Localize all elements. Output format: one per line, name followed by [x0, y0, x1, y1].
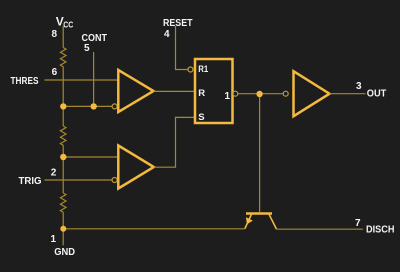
- wire divider node to U1 inverting input: [63, 105, 112, 107]
- wire R1 to R2 (divider node 2/3 Vcc): [62, 67, 64, 126]
- transistor Q1 emitter lead: [245, 214, 252, 229]
- svg-text:DISCH: DISCH: [366, 225, 395, 236]
- svg-text:1: 1: [51, 234, 57, 245]
- svg-text:THRES: THRES: [11, 76, 39, 87]
- wire TRIG to comparator U2 inverting input: [45, 179, 113, 181]
- wire divider 1/3 node to U2 noninverting input: [63, 156, 118, 158]
- wire node D to Q1 base: [259, 94, 261, 212]
- svg-text:RESET: RESET: [163, 18, 193, 29]
- junction node D (output / discharge tap): [256, 91, 262, 97]
- svg-text:S: S: [198, 112, 204, 123]
- junction node B (CONT tie-in): [91, 103, 97, 109]
- inversion bubble U2 input: [112, 178, 117, 183]
- svg-text:R1: R1: [198, 64, 209, 75]
- wire R2 to R3 (divider node 1/3 Vcc): [62, 145, 64, 193]
- svg-text:1: 1: [225, 91, 231, 102]
- svg-text:TRIG: TRIG: [19, 176, 42, 187]
- svg-text:8: 8: [52, 29, 58, 40]
- wire U2 output to latch S input: [154, 117, 195, 167]
- wire THRES to comparator U1 noninverting input: [45, 79, 119, 81]
- op-amp U4 (output buffer): [294, 71, 330, 116]
- wire U1 output to latch R input: [154, 90, 196, 92]
- svg-text:2: 2: [51, 167, 57, 178]
- inversion bubble latch R1 input: [188, 67, 193, 72]
- op-amp U2 (trigger comparator): [118, 146, 154, 189]
- wire VCC stub: [62, 26, 64, 48]
- junction node C (divider / U2 input): [60, 154, 66, 160]
- svg-text:OUT: OUT: [367, 89, 387, 100]
- wire GND node to Q1 emitter: [63, 228, 245, 230]
- svg-text:6: 6: [52, 67, 58, 78]
- svg-text:7: 7: [355, 218, 361, 229]
- inversion bubble U1 input: [112, 104, 117, 109]
- inversion bubble latch output: [233, 91, 238, 96]
- transistor Q1 collector lead: [269, 214, 277, 229]
- wire buffer output to OUT: [330, 93, 366, 95]
- transistor Q1 (discharge) base bar: [246, 212, 272, 215]
- svg-text:CC: CC: [63, 20, 73, 30]
- wire RESET to latch R1 input: [176, 26, 188, 70]
- wire CONT vertical: [93, 52, 95, 106]
- resistor R1: [60, 48, 66, 67]
- svg-text:R: R: [198, 88, 205, 99]
- latch U3 box: [195, 59, 233, 123]
- node GND junction dot: [60, 226, 66, 232]
- transistor Q1 emitter arrow: [246, 217, 253, 224]
- wire R3 to GND node: [62, 212, 64, 245]
- wire Q1 collector to DISCH: [277, 228, 364, 230]
- svg-text:5: 5: [84, 43, 90, 54]
- wire latch output to buffer input: [238, 93, 283, 95]
- net VCC label: [56, 15, 74, 30]
- inversion bubble buffer input: [283, 91, 288, 96]
- svg-text:4: 4: [164, 29, 170, 40]
- resistor R3: [60, 193, 66, 212]
- resistor R2: [60, 126, 66, 145]
- svg-text:3: 3: [356, 81, 362, 92]
- op-amp U1 (threshold comparator): [118, 70, 153, 112]
- junction node A (divider / U1 input): [60, 103, 66, 109]
- svg-text:GND: GND: [54, 247, 75, 258]
